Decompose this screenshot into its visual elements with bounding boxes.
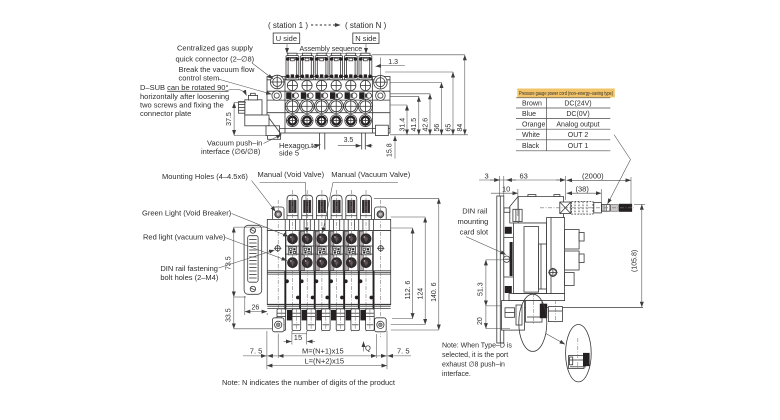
mid connectors xyxy=(288,247,296,255)
header xyxy=(517,89,615,98)
right dim (105.8) xyxy=(641,204,643,307)
bottom mounting ears xyxy=(272,318,284,332)
row A circles xyxy=(287,80,297,90)
svg-text:OUT 2: OUT 2 xyxy=(568,132,589,139)
svg-text:65: 65 xyxy=(445,124,452,132)
row B bits xyxy=(286,92,298,99)
D-SUB connector block (top view) xyxy=(245,100,262,115)
svg-text:DC(24V): DC(24V) xyxy=(564,100,591,107)
dim 7.5 right xyxy=(377,355,387,357)
svg-text:73.5: 73.5 xyxy=(226,256,233,270)
dim M xyxy=(278,355,376,357)
svg-text:card slot: card slot xyxy=(460,228,489,237)
base section divider xyxy=(267,270,390,272)
svg-text:Q: Q xyxy=(365,344,371,353)
svg-text:56: 56 xyxy=(434,124,441,132)
svg-text:control stem: control stem xyxy=(179,74,220,83)
svg-text:selected, it is the port: selected, it is the port xyxy=(442,352,508,359)
detail ellipse xyxy=(566,325,592,382)
svg-text:Manual (Void Valve): Manual (Void Valve) xyxy=(258,170,325,179)
svg-text:3: 3 xyxy=(485,171,489,180)
svg-text:N side: N side xyxy=(355,34,376,43)
arrow to detail ellipse xyxy=(546,334,565,345)
base dots xyxy=(285,279,289,283)
second dim line: 10 and (38) xyxy=(491,192,518,194)
indicator lights bottom row (red) xyxy=(288,258,298,268)
svg-text:White: White xyxy=(522,132,540,139)
dim 26 xyxy=(244,296,246,315)
bottom left bracket xyxy=(502,301,525,331)
svg-text:DC(0V): DC(0V) xyxy=(566,111,589,118)
DIN slot card area xyxy=(504,238,515,278)
station panels xyxy=(286,231,299,271)
svg-text:Mounting Holes (4–4.5x6): Mounting Holes (4–4.5x6) xyxy=(162,172,248,181)
manual override buttons xyxy=(287,195,298,219)
svg-text:Pressure gauge power cord (non: Pressure gauge power cord (non–energy–sa… xyxy=(519,91,613,97)
svg-text:112. 6: 112. 6 xyxy=(405,280,412,299)
svg-text:Black: Black xyxy=(522,143,540,150)
svg-text:connector plate: connector plate xyxy=(140,109,191,118)
manifold body (top view) xyxy=(267,77,390,134)
Q arrow xyxy=(363,342,365,352)
detail contents xyxy=(569,356,585,369)
dim 73.5 xyxy=(233,227,235,297)
svg-text:Green Light (Void Breaker): Green Light (Void Breaker) xyxy=(142,209,232,218)
D-SUB lower housing xyxy=(245,115,269,126)
bottom dims xyxy=(266,331,268,369)
right dimension stack xyxy=(390,134,468,136)
svg-text:33.5: 33.5 xyxy=(226,308,233,322)
svg-text:exhaust ∅8 push–in: exhaust ∅8 push–in xyxy=(442,362,505,369)
right vacuum stem circle xyxy=(376,91,386,101)
svg-text:interface.: interface. xyxy=(442,371,471,378)
svg-text:interface (∅6/∅8): interface (∅6/∅8) xyxy=(201,147,261,156)
svg-text:31.4: 31.4 xyxy=(399,118,406,132)
station center dash lines xyxy=(278,190,380,337)
svg-text:Brown: Brown xyxy=(522,100,542,107)
right body section xyxy=(547,218,565,301)
svg-text:DIN rail fastening: DIN rail fastening xyxy=(160,264,218,273)
svg-text:51.3: 51.3 xyxy=(477,282,484,296)
feet xyxy=(268,133,281,139)
left end cap gas connector circle xyxy=(270,75,284,89)
dim L xyxy=(267,365,387,367)
svg-text:horizontally after loosening: horizontally after loosening xyxy=(140,92,229,101)
svg-text:M=(N+1)x15: M=(N+1)x15 xyxy=(302,347,344,356)
D-SUB connector (front) xyxy=(244,225,262,294)
svg-text:Orange: Orange xyxy=(522,122,545,129)
svg-text:L=(N+2)x15: L=(N+2)x15 xyxy=(305,356,345,365)
dim 56 xyxy=(441,83,443,135)
indicator lights top row (green) xyxy=(288,234,298,244)
hexagon port B (3.5) xyxy=(361,133,363,150)
dim 37.5 xyxy=(233,103,235,136)
top dimension lines xyxy=(479,179,566,181)
svg-text:(105.8): (105.8) xyxy=(632,250,639,272)
dim 33.5 xyxy=(233,297,235,329)
dim 84 xyxy=(464,55,466,135)
dim 7.5 left xyxy=(243,355,266,357)
svg-text:Analog output: Analog output xyxy=(556,122,599,129)
svg-text:7. 5: 7. 5 xyxy=(397,346,410,355)
top mounting ears xyxy=(272,207,284,221)
svg-text:84: 84 xyxy=(457,124,464,132)
svg-text:quick connector (2–∅8): quick connector (2–∅8) xyxy=(176,55,255,64)
svg-text:Manual (Vacuum Valve): Manual (Vacuum Valve) xyxy=(331,170,410,179)
svg-text:D–SUB can be rotated 90°: D–SUB can be rotated 90° xyxy=(140,83,228,92)
svg-text:3.5: 3.5 xyxy=(344,137,354,144)
top plate xyxy=(267,219,390,230)
left vacuum stem circle xyxy=(272,91,282,101)
left dims 51.3 / 20 xyxy=(485,260,487,306)
hexagon port A xyxy=(319,133,321,150)
svg-text:(38): (38) xyxy=(576,185,590,194)
DIN rail plate xyxy=(497,196,504,343)
svg-text:bolt holes (2–M4): bolt holes (2–M4) xyxy=(160,273,218,282)
svg-text:Note: When Type–D is: Note: When Type–D is xyxy=(442,343,512,350)
svg-text:Note: N indicates the number o: Note: N indicates the number of digits o… xyxy=(222,378,396,387)
svg-text:37.5: 37.5 xyxy=(226,112,233,126)
svg-text:7. 5: 7. 5 xyxy=(250,346,263,355)
right fittings xyxy=(565,230,580,250)
svg-text:( station 1 ): ( station 1 ) xyxy=(268,21,308,30)
grid lines xyxy=(516,98,610,151)
callout ellipse around port xyxy=(519,294,547,351)
bottom plate xyxy=(267,303,390,305)
N side box xyxy=(353,33,379,44)
svg-text:15: 15 xyxy=(294,333,302,342)
dim 15 xyxy=(291,331,293,345)
D-SUB side profile xyxy=(539,244,547,289)
dark vertical bars between stations (base) xyxy=(284,271,286,310)
svg-text:(2000): (2000) xyxy=(582,172,604,181)
dim 65 xyxy=(452,72,454,135)
svg-text:Assembly sequence: Assembly sequence xyxy=(300,46,363,53)
top block (solenoid side) xyxy=(510,196,564,223)
svg-text:OUT 1: OUT 1 xyxy=(568,143,589,150)
svg-text:DIN rail: DIN rail xyxy=(462,207,487,216)
ridged screw xyxy=(239,102,245,114)
bottom port (inside ellipse) xyxy=(526,301,543,323)
svg-text:63: 63 xyxy=(520,171,528,180)
U side box xyxy=(273,33,300,44)
row D circles xyxy=(286,115,298,127)
bottom section xyxy=(513,293,564,295)
svg-text:140. 6: 140. 6 xyxy=(431,282,438,302)
svg-text:mounting: mounting xyxy=(458,217,489,226)
svg-text:U side: U side xyxy=(276,34,297,43)
screw circle xyxy=(549,268,557,276)
svg-text:Red light (vacuum valve): Red light (vacuum valve) xyxy=(143,233,226,242)
gray separators xyxy=(300,231,305,270)
assembly bracket arrows xyxy=(286,44,288,54)
svg-text:Blue: Blue xyxy=(522,111,536,118)
station bodies xyxy=(285,231,373,295)
svg-text:Centralized gas supply: Centralized gas supply xyxy=(177,43,253,52)
svg-text:26: 26 xyxy=(252,305,260,312)
dim 41.5 xyxy=(418,96,420,135)
svg-text:41.5: 41.5 xyxy=(411,118,418,132)
dim 42.6 xyxy=(429,94,431,135)
leader to cord xyxy=(608,135,631,204)
right dims 112.6 / 124 / 140.6 xyxy=(391,227,413,229)
svg-text:20: 20 xyxy=(477,317,484,325)
power cord connector xyxy=(560,202,571,214)
right end cap gas connector circle xyxy=(374,75,388,89)
svg-text:side 5: side 5 xyxy=(279,148,299,157)
svg-text:( station N ): ( station N ) xyxy=(345,21,387,30)
valve body section outline xyxy=(267,231,390,305)
main body xyxy=(513,223,546,294)
dim 15.8 xyxy=(394,136,396,159)
row C big circles xyxy=(285,99,299,113)
solenoid stations xyxy=(286,53,299,80)
svg-text:10: 10 xyxy=(502,185,510,194)
dim 31.4 xyxy=(406,105,408,135)
DIN rail bolt hole marks (2-M4) xyxy=(274,245,384,252)
svg-text:124: 124 xyxy=(417,288,424,300)
svg-text:42.6: 42.6 xyxy=(422,118,429,132)
bottom fittings xyxy=(277,309,286,331)
svg-text:15.8: 15.8 xyxy=(387,143,394,157)
